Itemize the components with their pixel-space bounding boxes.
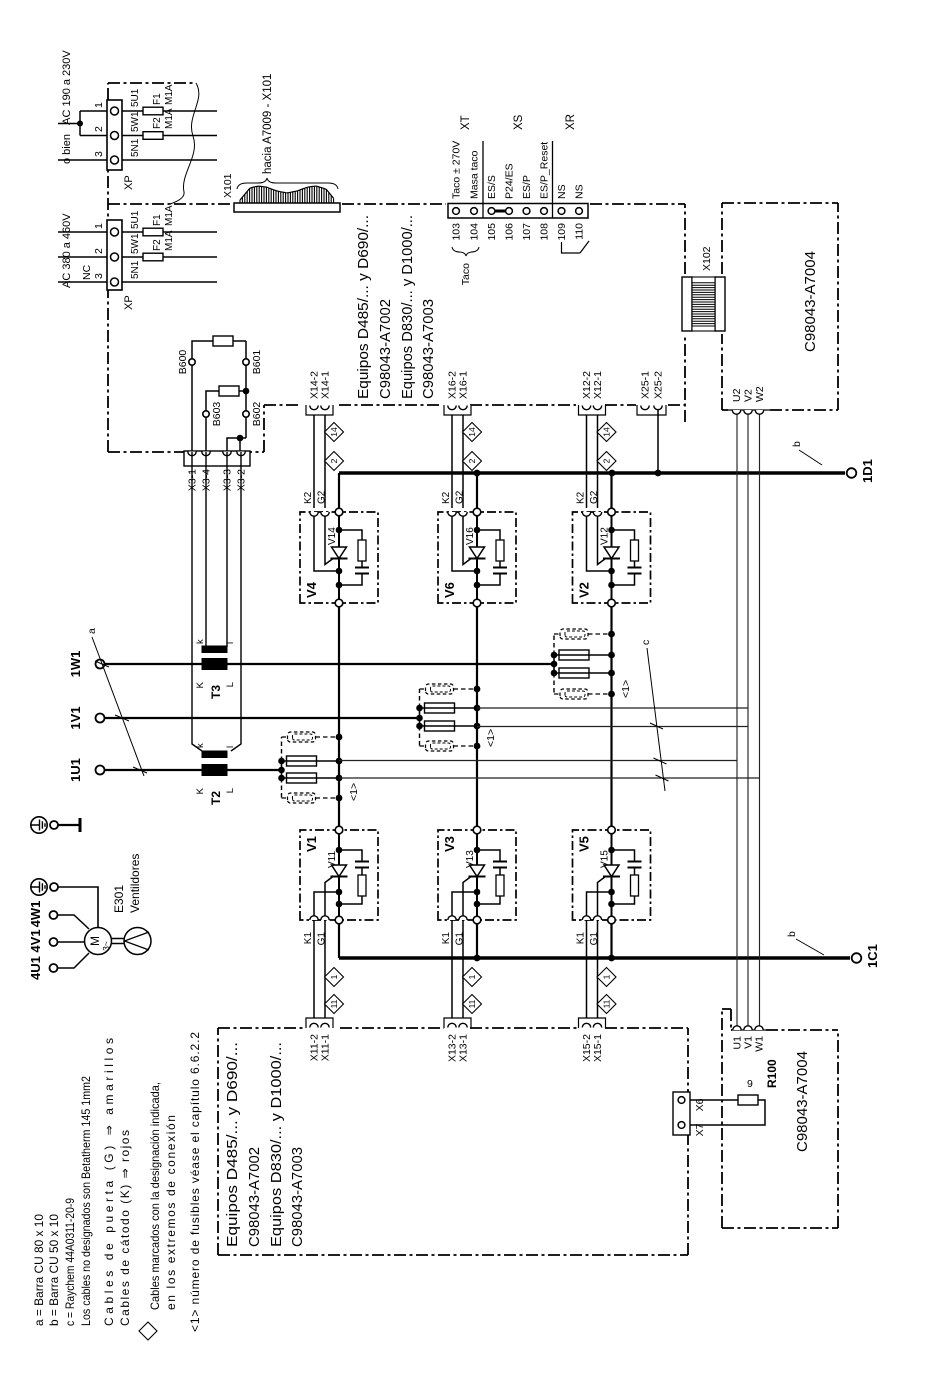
- svg-text:Equipos D485/... y D690/...: Equipos D485/... y D690/...: [355, 215, 372, 399]
- svg-text:ES/P_Reset: ES/P_Reset: [539, 142, 551, 199]
- connector XP (AC 380-460V block): [58, 220, 135, 310]
- sense wire U (U1/U2): [736, 412, 738, 1026]
- svg-text:109: 109: [556, 223, 568, 241]
- svg-text:o bien AC 190 a 230V: o bien AC 190 a 230V: [61, 50, 73, 164]
- svg-text:2: 2: [93, 126, 105, 132]
- motor M 3~: [85, 928, 112, 955]
- fuse F2 M1A (XP upper): [122, 108, 217, 139]
- svg-text:4V1: 4V1: [28, 929, 43, 952]
- wire 5N1 (XP lower pin3): [122, 281, 217, 283]
- svg-text:5W1: 5W1: [130, 233, 141, 254]
- svg-text:AC 380 a 460V: AC 380 a 460V: [61, 213, 73, 288]
- svg-text:C98043-A7002: C98043-A7002: [377, 299, 394, 399]
- wire phase 1U1: [105, 769, 283, 771]
- svg-text:K: K: [195, 787, 206, 794]
- svg-text:F1: F1: [152, 93, 163, 105]
- ground terminal (upper): [31, 817, 80, 833]
- svg-text:G2: G2: [589, 490, 600, 504]
- connector X14: [306, 371, 333, 415]
- wire V-leg (V6/V3): [476, 473, 478, 958]
- legend notes: [32, 1032, 202, 1332]
- svg-text:X11-1: X11-1: [320, 1034, 332, 1061]
- terminal 4W1: [50, 911, 90, 929]
- svg-text:ES/S: ES/S: [486, 175, 498, 199]
- svg-text:V2: V2: [743, 389, 755, 402]
- svg-text:2: 2: [467, 458, 477, 463]
- svg-text:X15-1: X15-1: [592, 1034, 604, 1062]
- resistor B600-B601: [192, 336, 246, 451]
- branch fuses U-phase: [278, 732, 360, 803]
- svg-text:C98043-A7004: C98043-A7004: [802, 251, 819, 352]
- svg-text:C98043-A7003: C98043-A7003: [289, 1147, 306, 1247]
- labels 5U1 5W1 5N1 (lower): [130, 210, 141, 279]
- sense drop U-leg fuse 1: [339, 760, 737, 762]
- wire K2/G2 to X16: [441, 410, 466, 508]
- test point B602: [243, 402, 263, 427]
- connector X15: [579, 1018, 606, 1062]
- svg-text:2: 2: [93, 248, 105, 254]
- board C98043-A7004 (lower): [722, 1009, 838, 1228]
- resistor R100: [690, 1059, 779, 1125]
- terminal 1U1: [68, 758, 105, 782]
- svg-text:1U1: 1U1: [68, 758, 83, 782]
- svg-text:B603: B603: [211, 402, 223, 427]
- ground terminal (fan group): [31, 879, 98, 927]
- wire phase 1W1: [105, 663, 555, 665]
- svg-text:9: 9: [747, 1078, 753, 1090]
- connector X12: [579, 371, 606, 415]
- terminal 4V1: [50, 938, 85, 946]
- svg-text:X102: X102: [701, 246, 713, 271]
- svg-text:<1>: <1>: [620, 680, 632, 698]
- marker diamonds 1/11 (X11): [325, 968, 344, 1014]
- wire CT loom X3-4/X3-3 to T3: [206, 452, 227, 647]
- svg-text:5N1: 5N1: [130, 260, 141, 279]
- svg-text:Equipos D830/... y D1000/...: Equipos D830/... y D1000/...: [399, 215, 416, 399]
- svg-text:X25-2: X25-2: [653, 371, 665, 399]
- svg-text:K2: K2: [303, 491, 314, 504]
- terminal numbers 103-110: [451, 223, 586, 241]
- svg-text:F1: F1: [152, 214, 163, 226]
- svg-text:G1: G1: [589, 932, 600, 946]
- svg-text:3: 3: [93, 273, 105, 279]
- junction dots on buses: [474, 470, 662, 962]
- connector X11: [306, 1018, 333, 1061]
- svg-text:14: 14: [329, 427, 339, 437]
- fan E301: [112, 854, 151, 955]
- svg-text:Equipos D485/... y D690/...: Equipos D485/... y D690/...: [224, 1042, 241, 1247]
- svg-text:F2: F2: [152, 239, 163, 251]
- svg-text:4U1: 4U1: [28, 956, 43, 980]
- svg-text:X16-1: X16-1: [458, 371, 470, 399]
- sense wire W (W1/W2): [759, 412, 761, 1026]
- svg-text:M1A: M1A: [164, 230, 175, 251]
- svg-text:K1: K1: [576, 932, 587, 945]
- svg-text:Taco ± 270V: Taco ± 270V: [451, 141, 463, 199]
- svg-text:14: 14: [467, 427, 477, 437]
- XP1 dash-dot box with torn edge: [108, 83, 199, 204]
- svg-text:K1: K1: [303, 932, 314, 945]
- cable designation a: [86, 628, 147, 776]
- connector X101 ribbon: [222, 173, 340, 212]
- svg-text:Ventildores: Ventildores: [128, 854, 142, 913]
- svg-text:V4: V4: [304, 581, 319, 598]
- sense drop U-leg fuse 2: [339, 777, 760, 779]
- svg-text:1: 1: [93, 223, 105, 229]
- svg-text:5W1: 5W1: [130, 111, 141, 132]
- svg-text:Cables marcados con la designa: Cables marcados con la designación indic…: [148, 1082, 162, 1310]
- svg-text:K2: K2: [576, 491, 587, 504]
- connector X16: [444, 371, 471, 415]
- svg-text:G1: G1: [317, 932, 328, 946]
- svg-text:ES/P: ES/P: [521, 175, 533, 199]
- svg-text:l: l: [225, 746, 236, 748]
- svg-text:k: k: [195, 743, 206, 748]
- svg-text:V2: V2: [577, 582, 592, 598]
- svg-text:V3: V3: [442, 836, 457, 852]
- fuse F1 M1A (XP upper): [122, 84, 217, 115]
- svg-text:V5: V5: [577, 836, 592, 852]
- brace hacia A7009 - X101: [237, 74, 338, 189]
- svg-text:B601: B601: [251, 350, 263, 375]
- wire CT loom X3-1/X3-2 to T2: [192, 452, 241, 751]
- thyristor module V2: [573, 508, 651, 607]
- svg-text:M1A: M1A: [164, 108, 175, 129]
- svg-text:3~: 3~: [101, 941, 111, 951]
- svg-text:c: c: [640, 640, 652, 645]
- svg-text:106: 106: [504, 223, 516, 241]
- svg-text:4W1: 4W1: [28, 901, 43, 928]
- svg-text:a = Barra CU 80 x 10: a = Barra CU 80 x 10: [32, 1214, 46, 1326]
- svg-text:1: 1: [467, 974, 477, 979]
- svg-text:XR: XR: [565, 114, 577, 130]
- svg-text:V6: V6: [442, 582, 457, 598]
- control board A7002/A7003 outline: [108, 83, 685, 452]
- svg-text:C98043-A7002: C98043-A7002: [246, 1147, 263, 1247]
- current transformer T2: [195, 743, 236, 805]
- switch symbol NS 109-110: [562, 241, 590, 253]
- wire K1/G1 to X11: [303, 920, 328, 1023]
- terminal strip XT XS XR: [448, 141, 588, 218]
- wire K1/G1 to X15: [576, 920, 601, 1023]
- test point B601: [243, 350, 263, 375]
- svg-text:Cables de puerta (G) ⇒ amari: Cables de puerta (G) ⇒ amarillos: [102, 1038, 116, 1326]
- XT XS XR signal labels: [451, 114, 586, 199]
- svg-text:k: k: [195, 639, 206, 644]
- thyristor module V4: [300, 508, 378, 607]
- svg-text:1V1: 1V1: [68, 706, 83, 729]
- wire phase 1V1: [105, 717, 420, 719]
- svg-text:B602: B602: [251, 402, 263, 427]
- svg-text:2: 2: [602, 458, 612, 463]
- resistor B603-B602: [206, 386, 249, 451]
- fuse F1 M1A (XP lower): [122, 205, 217, 236]
- svg-text:W1: W1: [754, 1036, 766, 1052]
- sense wire V (V1/V2): [747, 412, 749, 1026]
- labels 5U1 5W1 5N1 (upper): [130, 88, 141, 157]
- svg-text:<1>: <1>: [348, 783, 360, 801]
- cable designation b (1D1): [791, 441, 822, 465]
- svg-text:l: l: [225, 642, 236, 644]
- connector X3 block: [184, 451, 250, 491]
- svg-text:Los cables no designados son B: Los cables no designados son Betatherm 1…: [79, 1076, 93, 1326]
- cable designation b (1C1): [786, 931, 824, 955]
- marker diamonds 1/11 (X15): [597, 968, 616, 1014]
- svg-text:X13-1: X13-1: [458, 1034, 470, 1062]
- svg-text:V1: V1: [304, 836, 319, 852]
- svg-text:1: 1: [329, 974, 339, 979]
- svg-text:NS: NS: [574, 184, 586, 199]
- svg-text:5U1: 5U1: [130, 210, 141, 229]
- svg-text:L: L: [225, 788, 236, 793]
- svg-text:5U1: 5U1: [130, 88, 141, 107]
- svg-text:1C1: 1C1: [865, 944, 880, 968]
- svg-text:en los extremos de conexión: en los extremos de conexión: [164, 1115, 178, 1310]
- terminal 4U1: [50, 953, 90, 972]
- svg-text:2: 2: [329, 458, 339, 463]
- svg-text:<1> número de fusibles véase: <1> número de fusibles véase el capítulo…: [188, 1032, 202, 1332]
- thyristor module V1: [300, 826, 378, 924]
- svg-text:V11: V11: [327, 851, 338, 868]
- svg-text:1: 1: [93, 102, 105, 108]
- labels 4U1 4V1 4W1: [28, 901, 43, 980]
- connector XP (AC 190-230V block): [58, 100, 135, 190]
- bus 1D1: [339, 459, 875, 483]
- svg-text:b = Barra CU 50 x 10: b = Barra CU 50 x 10: [47, 1214, 61, 1326]
- svg-text:Taco: Taco: [460, 263, 472, 285]
- connector X102 ribbon: [682, 246, 725, 331]
- svg-text:b: b: [791, 441, 803, 447]
- terminals U1 V1 W1: [732, 1026, 767, 1052]
- svg-text:C98043-A7004: C98043-A7004: [794, 1051, 811, 1152]
- svg-text:Equipos D830/... y D1000/...: Equipos D830/... y D1000/...: [268, 1042, 285, 1247]
- svg-text:a: a: [86, 628, 98, 634]
- svg-text:Masa taco: Masa taco: [469, 150, 481, 199]
- svg-text:M1A: M1A: [164, 84, 175, 105]
- cable designation c: [640, 640, 669, 791]
- terminals U2 V2 W2: [728, 386, 770, 414]
- svg-text:C98043-A7003: C98043-A7003: [420, 299, 437, 399]
- wire K1/G1 to X13: [441, 920, 466, 1023]
- fuse F2 M1A (XP lower): [122, 230, 217, 261]
- svg-text:107: 107: [521, 223, 533, 241]
- marker diamonds 14/2 (X14): [325, 423, 344, 471]
- sense drop V-leg fuse 2: [477, 726, 748, 728]
- test point B603: [203, 402, 223, 427]
- svg-text:5N1: 5N1: [130, 138, 141, 157]
- svg-text:K: K: [195, 681, 206, 688]
- svg-text:G2: G2: [317, 490, 328, 504]
- svg-text:XP: XP: [123, 175, 135, 190]
- svg-text:B600: B600: [177, 350, 189, 375]
- svg-text:R100: R100: [765, 1059, 779, 1088]
- wire W-leg (V2/V5): [610, 473, 612, 958]
- svg-text:E301: E301: [112, 885, 126, 913]
- svg-text:XS: XS: [513, 114, 525, 130]
- svg-text:105: 105: [486, 223, 498, 241]
- svg-text:14: 14: [602, 427, 612, 437]
- svg-text:U2: U2: [731, 388, 743, 402]
- svg-text:<1>: <1>: [485, 729, 497, 747]
- terminal 1W1: [68, 651, 105, 678]
- board A7002/A7003 (power section): [218, 1028, 688, 1255]
- svg-text:M: M: [88, 936, 102, 946]
- svg-text:X25-1: X25-1: [640, 371, 652, 399]
- svg-text:L: L: [225, 682, 236, 687]
- wire X25-2 to 1D1 bus: [657, 410, 659, 473]
- svg-text:108: 108: [539, 223, 551, 241]
- svg-text:1W1: 1W1: [68, 651, 83, 678]
- svg-text:1: 1: [602, 974, 612, 979]
- svg-text:X12-1: X12-1: [592, 371, 604, 399]
- marker diamonds 14/2 (X16): [463, 423, 482, 471]
- svg-text:XP: XP: [123, 295, 135, 310]
- svg-text:110: 110: [574, 223, 586, 240]
- svg-text:b: b: [786, 931, 798, 937]
- svg-text:3: 3: [93, 151, 105, 157]
- svg-text:NS: NS: [556, 184, 568, 199]
- wire 5N1 (XP upper pin3): [122, 159, 217, 161]
- svg-text:X101: X101: [222, 173, 234, 198]
- connector X25: [637, 371, 666, 415]
- svg-text:F2: F2: [152, 117, 163, 129]
- sense drop V-leg fuse 1: [477, 707, 748, 709]
- branch fuses V-phase: [416, 684, 497, 751]
- legend diamond symbol: [139, 1322, 157, 1340]
- label Equipos D485 / C98043-A7002 (control board): [355, 215, 437, 399]
- bus 1C1: [339, 944, 880, 968]
- thyristor module V3: [438, 826, 516, 924]
- svg-text:G1: G1: [455, 932, 466, 946]
- svg-text:P24/ES: P24/ES: [504, 163, 516, 199]
- svg-text:11: 11: [329, 999, 339, 1008]
- svg-text:XT: XT: [460, 115, 472, 130]
- label Equipos (gate board): [224, 1042, 306, 1247]
- svg-text:c = Raychem 44A0311-20-9: c = Raychem 44A0311-20-9: [63, 1198, 77, 1326]
- current transformer T3: [195, 639, 236, 699]
- svg-text:K1: K1: [441, 932, 452, 945]
- svg-text:T2: T2: [209, 791, 223, 805]
- svg-text:T3: T3: [209, 685, 223, 699]
- svg-text:11: 11: [602, 999, 612, 1008]
- connector X6/X7 plate: [673, 1092, 706, 1136]
- wire K2/G2 to X14: [303, 410, 328, 508]
- brace Taco 103-104: [452, 247, 479, 285]
- board C98043-A7004 (upper): [722, 203, 838, 410]
- svg-text:104: 104: [469, 223, 481, 241]
- wire B-node to X3-2/X3-3: [227, 341, 246, 451]
- svg-text:X14-1: X14-1: [320, 371, 332, 399]
- marker diamonds 14/2 (X12): [597, 423, 616, 471]
- svg-text:V13: V13: [465, 850, 476, 868]
- svg-text:V15: V15: [600, 850, 611, 868]
- svg-text:11: 11: [467, 999, 477, 1008]
- marker diamonds 1/11 (X13): [463, 968, 482, 1014]
- wire K2/G2 to X12: [576, 410, 601, 508]
- branch fuses W-phase: [551, 629, 632, 699]
- connector X13: [444, 1018, 471, 1062]
- svg-text:K2: K2: [441, 491, 452, 504]
- svg-text:1D1: 1D1: [860, 459, 875, 483]
- svg-text:hacia A7009 - X101: hacia A7009 - X101: [262, 74, 274, 174]
- wire U-leg (V4/V1): [338, 473, 340, 958]
- svg-text:W2: W2: [754, 386, 766, 402]
- thyristor module V5: [573, 826, 651, 924]
- svg-text:M1A: M1A: [164, 205, 175, 226]
- svg-text:103: 103: [451, 223, 463, 241]
- thyristor module V6: [438, 508, 516, 607]
- svg-text:G2: G2: [455, 490, 466, 504]
- test point B600: [177, 350, 195, 375]
- svg-text:NC: NC: [81, 264, 93, 280]
- terminal 1V1: [68, 706, 105, 729]
